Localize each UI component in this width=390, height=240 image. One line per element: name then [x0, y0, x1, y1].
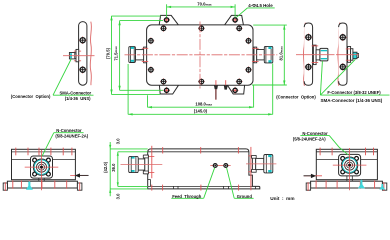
output connector coupling nut: [264, 46, 273, 63]
right options label underline: [320, 94, 389, 96]
view B dim extensions: [110, 149, 148, 189]
svg-text:(1/4-36 UNS): (1/4-36 UNS): [65, 96, 91, 101]
view A N-connector square flange: [31, 156, 53, 178]
view A base plate: [7, 181, 77, 188]
view C lid screw ticks: [320, 148, 373, 156]
dim 108.0 extension right: [253, 86, 255, 108]
view C base slot marks: [308, 182, 384, 191]
right option 2 connector tip: [357, 53, 359, 57]
cover screw top-right: [236, 25, 243, 32]
view C connector outer circle: [341, 157, 357, 173]
feed-through pin 1 on bottom edge: [214, 80, 218, 100]
right option 1 connector nut: [320, 48, 328, 61]
right option 1 connector plate: [313, 45, 316, 65]
dim 108.0 arrows: [148, 106, 254, 108]
right option 1 wall break line (red wavy): [303, 23, 305, 86]
ground label leader: [227, 168, 254, 199]
view C N-connector red crosshair: [333, 148, 367, 190]
dim 81.0 extension top: [253, 24, 287, 26]
view A label leader: [42, 133, 54, 157]
svg-text:N-Connector: N-Connector: [302, 131, 328, 136]
view B right connector neck: [256, 158, 264, 169]
right option 2 connector neck: [351, 49, 353, 61]
mounting hole bottom-left crosshair: [163, 87, 170, 94]
view A label underline: [54, 132, 84, 134]
left option flange screw lower: [79, 66, 87, 74]
svg-text:(79.5): (79.5): [106, 47, 111, 59]
enclosure top view horizontal centerline: [125, 54, 278, 56]
mounting tab top-right: [225, 15, 244, 25]
view B dim arrows: [109, 145, 119, 193]
dim (145.0) extension right: [272, 64, 274, 115]
view A base plate left foot: [3, 183, 7, 190]
view C label leader: [329, 135, 348, 155]
dim 81.0 extension bottom: [252, 84, 287, 86]
svg-text:(145.0): (145.0): [194, 108, 208, 113]
dim 108.0 extension left: [147, 95, 149, 107]
view A body: [12, 149, 76, 179]
view C cyan datum arrow: [358, 180, 365, 189]
view C connector inner ring: [347, 162, 353, 168]
input connector teal seal marks: [131, 47, 134, 62]
view B lid seam line: [148, 151, 249, 153]
dim 70.0 extension line right: [234, 4, 236, 17]
view A base slot marks: [5, 182, 79, 191]
mounting hole top-left crosshair: [163, 17, 170, 24]
cover screw top-left: [160, 25, 167, 32]
view A connector inner ring: [39, 164, 45, 170]
dim 108.0 line: [148, 106, 254, 108]
dim (79.5) extension bottom: [112, 93, 161, 95]
view C connector center pin cap: [348, 164, 351, 167]
view B left flange screw line (red vertical): [151, 146, 153, 178]
output connector teal seal marks: [268, 47, 271, 63]
svg-text:(5/8-24UNEF-2A): (5/8-24UNEF-2A): [293, 137, 326, 142]
svg-text:108.0max: 108.0max: [195, 102, 212, 107]
view A cyan arrow red tick: [28, 180, 30, 189]
svg-text:N-Connector: N-Connector: [56, 128, 82, 133]
feed through label leader: [171, 168, 214, 199]
mounting hole bottom-right crosshair: [232, 87, 239, 94]
hole callout leader: [236, 8, 247, 17]
view B right connector teal marks: [268, 155, 271, 173]
svg-text:4-Φ4.5 Hole: 4-Φ4.5 Hole: [248, 3, 273, 8]
enclosure top view vertical centerline: [199, 22, 201, 89]
view B left connector coupling nut: [129, 156, 139, 172]
output connector flange (right, top view): [254, 47, 257, 63]
svg-text:Unit : mm: Unit : mm: [270, 196, 294, 201]
right options label leader to option 2: [320, 59, 355, 95]
dim 71.5 extension top: [120, 20, 163, 22]
right option 2 screw upper: [339, 34, 347, 42]
view B feed-through hole: [213, 164, 217, 168]
svg-text:71.5max: 71.5max: [113, 46, 118, 61]
SMA option label underline: [53, 94, 94, 96]
view B lid screw ticks: [163, 147, 239, 153]
svg-text:70.0max: 70.0max: [197, 1, 212, 6]
right option 1 teal liner: [321, 50, 327, 60]
view C lid seam line: [316, 151, 377, 153]
svg-text:3.0: 3.0: [116, 138, 121, 144]
output connector body: [257, 50, 265, 60]
right option 2 centerline: [336, 54, 359, 56]
view C bias pin left: [304, 174, 323, 178]
dim 70.0 extension line left: [166, 4, 168, 17]
svg-text:(42.0): (42.0): [103, 161, 108, 173]
input connector coupling nut: [129, 47, 136, 63]
view A N-connector red crosshair: [25, 150, 59, 190]
view C base plate: [311, 181, 383, 188]
right option 1 connector body: [316, 50, 320, 60]
view B left connector teal marks: [132, 157, 135, 172]
view B left connector neck: [138, 159, 145, 170]
right option 1 screw upper: [305, 33, 313, 41]
view A flange corner bolts: [33, 158, 51, 176]
cover screw right-lower: [245, 66, 252, 73]
view C teal insulator circle: [342, 158, 357, 173]
output connector flange bolt ticks: [252, 48, 259, 61]
view A base screw ticks: [13, 180, 67, 188]
mounting tab bottom-left: [159, 85, 178, 94]
svg-text:3.0: 3.0: [116, 193, 121, 199]
svg-text:81.0max: 81.0max: [278, 46, 283, 61]
view B right connector coupling nut: [264, 155, 273, 173]
dim 71.5 extension bottom: [120, 89, 163, 91]
right option 2 connector bolt ticks: [346, 49, 353, 60]
view B left connector flange bolt bumps: [143, 155, 148, 174]
view A lid seam line: [12, 151, 76, 153]
input connector body: [135, 50, 143, 60]
SMA connector nut: [69, 53, 74, 59]
right option 1 screw lower: [305, 63, 313, 71]
dim (79.5) arrows: [110, 16, 112, 94]
view A connector mid circle: [37, 162, 47, 172]
view B feed-through holes centerline: [210, 165, 230, 167]
right option 2 connector plate: [348, 47, 351, 63]
view B right connector bolt ticks: [248, 156, 256, 172]
right option 2 wall break line (red wavy): [338, 23, 340, 86]
svg-text:SMA-Connector: SMA-Connector: [60, 90, 92, 95]
input connector flange (left, top view): [144, 47, 147, 63]
view B right connector flange plate: [252, 156, 255, 172]
view A flange corner bolt crosses: [33, 159, 50, 176]
hole callout underline: [248, 7, 275, 9]
view B body outline: [148, 149, 260, 189]
right option 1 centerline: [296, 54, 335, 56]
svg-text:36.0: 36.0: [111, 163, 116, 172]
svg-text:F-Connector (3/8-32 UNEF): F-Connector (3/8-32 UNEF): [327, 90, 381, 95]
SMA connector mounting plate: [76, 49, 79, 61]
SMA connector bolt ticks: [74, 51, 81, 61]
view C N-connector square flange: [339, 154, 361, 176]
left option wall break line (red wavy): [90, 22, 91, 86]
dim (79.5) line: [111, 16, 113, 95]
view C flange corner bolts: [341, 157, 359, 174]
view C base plate left foot: [306, 183, 310, 190]
view B left bottom notch: [148, 179, 151, 186]
view B base band dividers: [174, 186, 256, 189]
view C cyan plate arrow: [379, 184, 385, 190]
view B right connector flange bolt bumps: [252, 156, 257, 173]
SMA connector teal face: [70, 53, 72, 58]
svg-text:(Connector Option): (Connector Option): [11, 94, 51, 99]
view B base screw ticks: [152, 185, 239, 191]
cover screw bottom-middle: [198, 78, 205, 85]
dim 81.0 line: [283, 25, 285, 85]
cover screw top-middle: [198, 25, 205, 32]
mounting hole top-right crosshair: [232, 17, 239, 24]
right option 1 flange bar: [304, 23, 312, 85]
svg-text:SMA-Connector (1/4-36 UNS): SMA-Connector (1/4-36 UNS): [321, 98, 383, 103]
view A connector outer circle: [33, 159, 49, 175]
view B base seam line: [148, 185, 253, 187]
dim 81.0 arrows: [283, 25, 285, 85]
left option flange screw upper: [79, 36, 87, 44]
cover screw bottom-left: [160, 78, 167, 85]
view C flange corner bolt crosses: [341, 157, 358, 173]
mounting tab top-left: [159, 15, 178, 25]
view B left connector bolt ticks: [143, 156, 154, 172]
view B right flange screw line (red vertical): [250, 147, 252, 190]
dim (145.0) line: [128, 113, 273, 115]
view A inner ledge line: [12, 159, 76, 161]
view B left connector flange plate: [145, 155, 149, 174]
view C inner ledge line: [316, 159, 377, 161]
cover screw left-lower: [148, 66, 155, 73]
cover screw right-upper: [245, 37, 252, 44]
left option flange bar: [79, 22, 87, 86]
view B left N connector centerline: [121, 164, 163, 166]
right option 2 flange bar: [339, 23, 347, 85]
cover screw left-upper: [148, 37, 155, 44]
view C body: [316, 149, 377, 179]
view B right N connector centerline: [246, 163, 276, 165]
dim (145.0) extension left: [127, 64, 129, 114]
input connector flange bolt ticks: [142, 48, 148, 61]
view C label underline: [300, 134, 329, 136]
view C base plate right foot: [382, 183, 386, 190]
view A connector center pin: [40, 166, 43, 169]
dim 70.0 line: [167, 6, 236, 8]
right option 2 screw lower: [339, 63, 347, 71]
view C connector mid circle: [345, 160, 355, 170]
cover screw bottom-right: [236, 78, 243, 85]
dim 71.5 arrows: [118, 21, 120, 91]
feed-through pin 2 on bottom edge: [224, 80, 228, 89]
view C connector rear legs: [347, 176, 352, 182]
mounting tab bottom-right: [227, 85, 244, 94]
view B ground hole: [224, 164, 228, 168]
dim (145.0) arrows: [128, 113, 273, 115]
right option 2 F-connector nut (teal): [353, 52, 357, 59]
svg-text:Feed Through: Feed Through: [172, 194, 202, 199]
view A connector rear legs: [39, 178, 44, 181]
view A teal insulator circle: [34, 160, 49, 175]
view A base plate right foot: [77, 183, 82, 190]
right options label leader to option 1: [320, 61, 322, 95]
svg-text:(5/8-24UNEF-2A): (5/8-24UNEF-2A): [55, 133, 88, 138]
dim 70.0 arrows: [167, 6, 236, 8]
view B dim verticals: [110, 142, 118, 196]
svg-text:Ground: Ground: [237, 194, 253, 199]
SMA connector body neck: [75, 53, 76, 59]
view A connector center pin cap: [40, 166, 43, 169]
view A bias pin right: [70, 173, 88, 177]
dim 71.5 line: [119, 21, 121, 91]
view C connector center pin: [348, 164, 351, 167]
view C base screw ticks: [316, 180, 375, 188]
view A lid screw ticks: [16, 148, 72, 156]
svg-text:(Connector Option): (Connector Option): [276, 95, 316, 100]
right option 1 connector bolt ticks: [312, 46, 319, 63]
left option flange centerline: [63, 55, 95, 57]
enclosure top view body: [147, 25, 253, 85]
view A cyan datum arrow: [26, 181, 33, 190]
SMA option label leader: [53, 59, 71, 95]
dim (79.5) extension top: [112, 15, 161, 17]
